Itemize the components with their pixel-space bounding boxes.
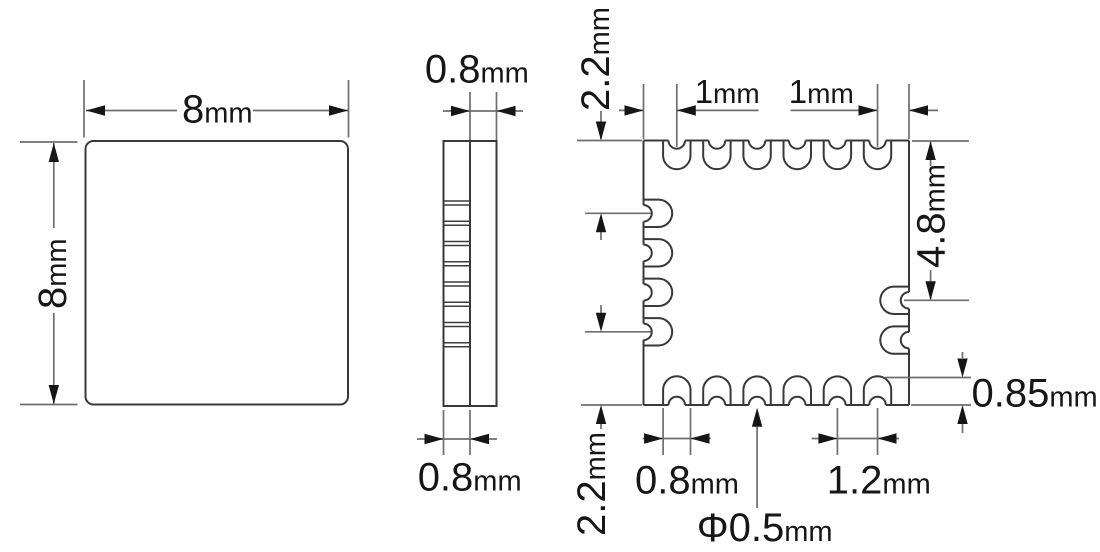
top pad 6 outline: [864, 141, 891, 170]
top pad 4 half-hole: [789, 141, 806, 149]
arrowhead down (4.8mm): [925, 281, 935, 300]
extension line pad1 center (1mm): [676, 84, 678, 147]
bottom-view top edge segment 1: [644, 140, 669, 142]
side view divider line (pcb/shield): [469, 141, 471, 406]
arrowhead up 8mm left: [49, 143, 59, 162]
extension line bottom pad top (0.85mm): [885, 377, 971, 379]
castellation stripe 1 bottom: [445, 204, 470, 206]
tail above (0.85mm): [962, 352, 964, 358]
arrowhead down 8mm left: [49, 385, 59, 404]
left pad 1 half-hole: [644, 205, 652, 222]
top pad 3 half-hole: [749, 141, 766, 149]
extension line pad6 center (1.2mm): [877, 408, 879, 455]
dimension line 0.8mm bottom: [417, 438, 497, 440]
bottom-view top edge segment 6: [846, 140, 870, 142]
castellation stripe 8 bottom: [445, 346, 470, 348]
castellation stripe 3 bottom: [445, 245, 470, 247]
extension line bottom edge left (2.2mm bottom): [581, 404, 642, 406]
extension line pad4 center (2.2mm bottom): [585, 331, 651, 333]
dimension line 4.8mm lower: [930, 270, 932, 299]
arrowhead right 8mm top: [329, 105, 348, 115]
bottom pad 6 half-hole: [869, 397, 886, 405]
top pad 5 half-hole: [829, 141, 846, 149]
bottom pad 4 half-hole: [789, 397, 806, 405]
bottom pad 4 outline: [784, 376, 812, 405]
arrowhead left (0.8mm pads): [691, 433, 710, 443]
extension line right corner (1mm): [908, 84, 910, 139]
leader arrowhead at half-hole (phi 0.5mm): [752, 408, 762, 427]
left pad 2 half-hole: [644, 245, 652, 262]
bottom-view bottom edge segment 2: [685, 404, 709, 406]
top view package outline 8mm x 8mm: [86, 141, 349, 405]
arrowhead up at bottom edge (2.2mm bottom): [596, 405, 606, 424]
extension line left (0.8mm bottom): [443, 410, 445, 455]
arrowhead at 470 (0.8mm bottom): [470, 434, 489, 444]
top pad 6 half-hole: [869, 141, 886, 149]
castellation stripe 7 top: [445, 322, 470, 324]
right pad 1 outline: [880, 287, 909, 314]
arrowhead at 496.5 (0.8mm top): [497, 106, 516, 116]
tail below (0.85mm): [962, 424, 964, 433]
bottom-view bottom edge segment 5: [806, 404, 830, 406]
dimension line 8mm top left segment: [86, 110, 177, 112]
bottom-view bottom edge segment 1: [644, 404, 669, 406]
top pad 1 outline: [663, 141, 690, 170]
extension line left (0.8mm top): [469, 92, 471, 140]
arrowhead right (1.2mm): [818, 433, 837, 443]
extension line top (8mm left dim): [20, 141, 78, 143]
dimension line under 1mm second: [791, 109, 878, 111]
arrowhead right (0.8mm pads): [644, 433, 663, 443]
extension line bottom edge right (0.85mm): [911, 404, 971, 406]
extension line right pad1 center (4.8mm): [904, 299, 969, 301]
bottom pad 3 half-hole: [749, 397, 766, 405]
castellation stripe 4 bottom: [445, 265, 470, 267]
extension line right (0.8mm bottom): [469, 410, 471, 455]
arrowhead left at right corner (1mm second): [909, 105, 928, 115]
extension line top edge left (2.2mm top): [577, 140, 642, 142]
bottom pad 3 outline: [743, 376, 770, 405]
left pad 3 outline: [644, 279, 673, 306]
arrowhead left 8mm top: [86, 105, 105, 115]
right pad 2 half-hole: [901, 332, 909, 349]
left pad 3 half-hole: [644, 284, 652, 301]
bottom-view right edge segment 1: [908, 141, 910, 293]
svg-text:1mm: 1mm: [789, 73, 854, 110]
bottom pad 1 outline: [663, 376, 690, 405]
castellation stripe 2 bottom: [445, 224, 470, 226]
dimension line 2.2mm bottom lower: [600, 424, 602, 429]
top pad 5 outline: [824, 141, 851, 170]
arrowhead at 470 (0.8mm top): [451, 106, 470, 116]
castellation stripe 5 top: [445, 281, 470, 283]
extension line top edge right (4.8mm): [912, 140, 969, 142]
bottom-view bottom edge segment 7: [886, 404, 909, 406]
castellation stripe 8 top: [445, 342, 470, 344]
arrowhead right at left corner (1mm first): [625, 105, 644, 115]
left pad 4 outline: [644, 318, 673, 345]
castellation stripe 7 bottom: [445, 326, 470, 328]
castellation stripe 6 top: [445, 301, 470, 303]
top pad 3 outline: [743, 141, 770, 170]
arrowhead right at pad6 center (1mm second): [859, 105, 878, 115]
arrowhead up at pad1 center (2.2mm top): [596, 213, 606, 232]
bottom-view top edge segment 4: [765, 140, 789, 142]
bottom-view top edge segment 5: [806, 140, 830, 142]
dimension line 8mm left lower segment: [53, 313, 55, 404]
extension line pad6 center (1mm): [877, 84, 879, 147]
outside tail left (1mm first): [619, 109, 644, 111]
dimension line 4.8mm upper: [930, 142, 932, 166]
arrowhead down at top edge (2.2mm top): [596, 122, 606, 141]
castellation stripe 4 top: [445, 261, 470, 263]
extension line pad1 left (0.8mm pads): [662, 408, 664, 455]
side view body outline: [444, 141, 497, 406]
bottom-view bottom edge segment 3: [725, 404, 749, 406]
bottom-view bottom edge segment 4: [765, 404, 789, 406]
left pad 4 half-hole: [644, 324, 652, 341]
castellation stripe 3 top: [445, 241, 470, 243]
arrowhead down (0.85mm): [957, 359, 967, 378]
dimension line 2.2mm top upper: [600, 111, 602, 139]
arrowhead left at pad1 center (1mm first): [677, 105, 696, 115]
leader line (phi 0.5mm): [756, 427, 758, 508]
bottom-view top edge segment 7: [886, 140, 909, 142]
bottom-view top edge segment 2: [685, 140, 709, 142]
svg-text:1mm: 1mm: [695, 73, 760, 110]
bottom pad 5 half-hole: [829, 397, 846, 405]
top pad 4 outline: [784, 141, 812, 170]
bottom-view right edge segment 2: [908, 309, 910, 332]
extension line pad5 center (1.2mm): [836, 408, 838, 455]
dimension line 1.2mm: [812, 438, 899, 440]
arrowhead at 443.5 (0.8mm bottom): [425, 434, 444, 444]
dimension line 0.8mm top: [443, 110, 523, 112]
arrowhead down at pad4 center (2.2mm bottom): [596, 313, 606, 332]
arrowhead up (4.8mm): [925, 141, 935, 160]
bottom-view bottom edge segment 6: [846, 404, 870, 406]
left pad 1 outline: [644, 200, 673, 227]
bottom pad 2 half-hole: [709, 397, 726, 405]
extension line pad1 right (0.8mm pads): [690, 408, 692, 455]
extension line left corner (1mm): [643, 84, 645, 139]
dimension line 2.2mm top lower tail: [600, 232, 602, 240]
bottom-view right edge segment 3: [908, 348, 910, 405]
bottom pad 5 outline: [824, 376, 851, 405]
dimension line 8mm top right segment: [253, 110, 348, 112]
castellation stripe 5 bottom: [445, 285, 470, 287]
dimension line 0.8mm pads: [643, 438, 711, 440]
dimension line under 1mm first: [677, 109, 759, 111]
bottom-view left edge segment 1: [643, 141, 645, 206]
bottom-view top edge segment 3: [725, 140, 749, 142]
arrowhead up (0.85mm): [957, 405, 967, 424]
bottom pad 1 half-hole: [669, 397, 686, 405]
bottom-view left edge segment 4: [643, 301, 645, 324]
extension line right (8mm top dim): [348, 80, 350, 138]
bottom-view left edge segment 3: [643, 261, 645, 284]
right pad 2 outline: [880, 326, 909, 353]
bottom-view left edge segment 5: [643, 340, 645, 405]
right pad 1 half-hole: [901, 292, 909, 309]
castellation stripe 1 top: [445, 200, 470, 202]
bottom-view left edge segment 2: [643, 222, 645, 245]
dimension line 8mm left upper segment: [53, 143, 55, 228]
outside tail right (1mm second): [909, 109, 938, 111]
bottom pad 2 outline: [703, 376, 730, 405]
castellation stripe 6 bottom: [445, 305, 470, 307]
extension line bottom (8mm left dim): [20, 404, 78, 406]
extension line pad1 center (2.2mm top): [585, 212, 651, 214]
castellation stripe 2 top: [445, 220, 470, 222]
top pad 1 half-hole: [669, 141, 686, 149]
top pad 2 outline: [703, 141, 730, 170]
tail above (2.2mm bottom): [600, 305, 602, 313]
top pad 2 half-hole: [709, 141, 726, 149]
arrowhead left (1.2mm): [878, 433, 897, 443]
extension line right (0.8mm top): [496, 92, 498, 140]
extension line left (8mm top dim): [83, 80, 85, 138]
bottom pad 6 outline: [864, 376, 891, 405]
left pad 2 outline: [644, 239, 673, 266]
